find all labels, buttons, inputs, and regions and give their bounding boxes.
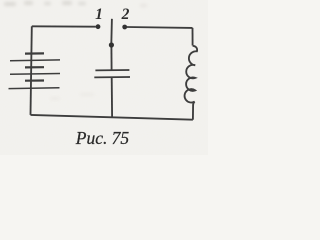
wire right vertical top (corner to coil) <box>192 28 194 46</box>
capacitor C plate bottom <box>94 76 130 78</box>
battery B plate short 2 <box>25 66 44 68</box>
inductor L coil <box>185 46 198 105</box>
battery B plate short 3 <box>25 79 44 81</box>
wire switch pole to capacitor <box>110 45 112 70</box>
wire top-right (contact 2 to corner) <box>127 26 193 29</box>
svg-text:Рис.: Рис. <box>75 128 108 148</box>
battery B plate long 1 <box>10 59 60 62</box>
wire capacitor to bottom <box>111 77 113 117</box>
contact dot 1 <box>96 24 101 29</box>
wire top-left (corner to contact 1) <box>32 25 96 27</box>
capacitor C plate top <box>95 69 129 71</box>
switch lever <box>110 19 113 45</box>
battery B plate long 3 <box>9 87 60 90</box>
svg-text:1: 1 <box>95 6 103 23</box>
svg-text:2: 2 <box>121 6 130 23</box>
showthrough smudges top edge <box>4 2 16 6</box>
switch pole dot <box>109 42 114 47</box>
svg-text:75: 75 <box>112 128 130 148</box>
paper background <box>0 0 208 155</box>
battery B plate long 2 <box>10 73 60 76</box>
wire bottom (left corner to right corner) <box>31 115 193 120</box>
contact dot 2 <box>122 25 127 30</box>
battery B plate short 1 <box>25 52 44 54</box>
wire left vertical (top corner through battery to bottom corner) <box>31 26 32 115</box>
wire right vertical bottom (coil to corner) <box>192 105 194 120</box>
